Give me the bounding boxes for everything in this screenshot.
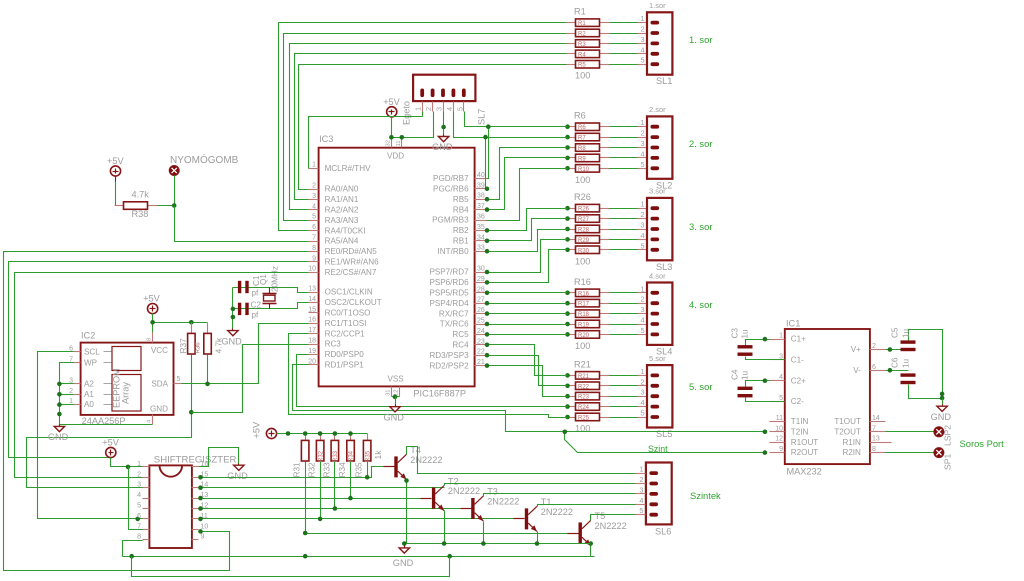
wire IC3 pin 27 PSP4/RD4 straight to row4-2 bbox=[487, 303, 568, 305]
svg-text:1: 1 bbox=[640, 118, 644, 127]
SL2 pad pin bbox=[651, 146, 660, 150]
resistor R30 100 ohm row 5 bbox=[567, 249, 576, 251]
svg-text:2. sor: 2. sor bbox=[689, 138, 712, 149]
IC2 pin 6 SCL bbox=[74, 351, 81, 353]
svg-text:3.sor: 3.sor bbox=[649, 187, 666, 196]
svg-text:R6: R6 bbox=[578, 125, 586, 131]
svg-text:R21: R21 bbox=[578, 374, 590, 380]
svg-text:2: 2 bbox=[312, 183, 316, 190]
svg-text:T2: T2 bbox=[448, 476, 459, 486]
IC1 pin 13 R1IN stub extension bbox=[886, 442, 892, 444]
IC1 pin 6 V- bbox=[870, 370, 886, 372]
shift register pin 11 bbox=[192, 518, 199, 520]
junction dot at R20 input bbox=[565, 332, 570, 337]
IC3 pin 34 RB1 bbox=[475, 240, 487, 242]
svg-text:2: 2 bbox=[424, 107, 433, 111]
svg-text:RA2/AN2: RA2/AN2 bbox=[325, 206, 359, 215]
svg-text:RA4/T0CKI: RA4/T0CKI bbox=[325, 226, 366, 235]
connector SL6 Szintek levels bbox=[646, 463, 672, 525]
IC2 pin 5 SDA bbox=[174, 383, 182, 385]
wire IC3 pin 26 RX/RC7 straight to row4-3 bbox=[487, 313, 568, 315]
svg-text:2: 2 bbox=[640, 210, 644, 219]
SL5 pad pin bbox=[651, 405, 660, 409]
output dots on shift register pins bbox=[198, 475, 203, 480]
resistor R20 100 ohm row 5 bbox=[567, 334, 576, 336]
IC3 pin 36 PGM/RB3 bbox=[475, 220, 487, 222]
IC3 pin 15 RC0/T1OSO bbox=[309, 312, 319, 314]
svg-text:6: 6 bbox=[137, 513, 141, 520]
pad LSP2 serial port line bbox=[934, 427, 944, 437]
IC3 pin 30 PSP7/RD7 bbox=[475, 272, 487, 274]
svg-text:VCC: VCC bbox=[151, 346, 168, 355]
wire RA4 (IC3 pin 6) to row-1 resistor 1 bbox=[279, 23, 567, 231]
SL7 pad pin 5 bbox=[462, 89, 466, 98]
wire R8 to connector SL2 pin 3 bbox=[610, 147, 638, 149]
svg-text:R35: R35 bbox=[365, 450, 371, 462]
svg-text:R25: R25 bbox=[578, 416, 590, 422]
svg-text:R8: R8 bbox=[578, 146, 586, 152]
svg-text:1u: 1u bbox=[741, 329, 750, 339]
junction dot R35 bbox=[365, 475, 370, 480]
resistor R22 100 ohm row 2 bbox=[567, 385, 576, 387]
svg-text:RA5/AN4: RA5/AN4 bbox=[325, 237, 359, 246]
wire IC3 pin 33 INT/RB0 to row3-3 bbox=[487, 230, 568, 252]
svg-text:A1: A1 bbox=[84, 390, 94, 399]
SL2 pad pin bbox=[651, 156, 660, 160]
wire R20 to connector SL4 pin 5 bbox=[610, 334, 638, 336]
svg-text:15: 15 bbox=[308, 306, 316, 313]
wire R2IN to serial pad bbox=[886, 452, 934, 454]
svg-text:22: 22 bbox=[477, 349, 485, 356]
svg-text:2: 2 bbox=[137, 471, 141, 478]
SL6 pad pin 4 bbox=[649, 502, 658, 506]
+5V symbol at EEPROM VCC bbox=[148, 304, 158, 314]
svg-text:5: 5 bbox=[640, 160, 644, 169]
svg-text:100: 100 bbox=[575, 71, 590, 81]
wire T4 collector to SL6 pin1 bbox=[407, 447, 636, 474]
+5V supply symbol for base resistors bbox=[266, 428, 276, 438]
capacitor C2 pF bbox=[238, 303, 241, 315]
wire RA2 (IC3 pin 4) to row-1 resistor 3 bbox=[290, 44, 567, 210]
svg-text:Q1: Q1 bbox=[259, 274, 268, 285]
svg-text:SL1: SL1 bbox=[656, 76, 672, 86]
wire R32 bottom to transistor base line bbox=[320, 462, 322, 519]
ground symbol below EEPROM bbox=[59, 425, 61, 427]
resistor R4 100 ohm row 4 bbox=[567, 53, 576, 55]
resistor R27 100 ohm row 2 bbox=[567, 218, 576, 220]
pad SP1 serial port line bbox=[934, 448, 944, 458]
svg-text:18: 18 bbox=[308, 338, 316, 345]
svg-text:5: 5 bbox=[639, 506, 643, 515]
shift register pin 12 bbox=[192, 508, 199, 510]
svg-text:5: 5 bbox=[177, 376, 181, 383]
svg-text:OSC1/CLKIN: OSC1/CLKIN bbox=[325, 288, 373, 297]
shift register pin 15 bbox=[192, 477, 199, 479]
svg-text:V-: V- bbox=[853, 366, 861, 375]
wire SL7 pin5 / PGD to resistor row2-1 bbox=[465, 112, 568, 127]
svg-text:+5V: +5V bbox=[143, 294, 160, 304]
wire IC3 pin 19 RD0/PSP0 under chip to row5-4 bbox=[297, 355, 568, 407]
svg-text:14: 14 bbox=[872, 415, 880, 422]
svg-text:3: 3 bbox=[640, 305, 644, 314]
svg-text:SDA: SDA bbox=[151, 380, 168, 389]
svg-text:5.sor: 5.sor bbox=[649, 354, 666, 363]
junction dot at R19 input bbox=[565, 322, 570, 327]
IC3 pin 23 RC4 bbox=[475, 344, 487, 346]
svg-text:5. sor: 5. sor bbox=[689, 381, 712, 392]
resistor R25 100 ohm row 5 bbox=[567, 417, 576, 419]
svg-text:R20: R20 bbox=[578, 333, 590, 339]
svg-text:R1: R1 bbox=[578, 21, 586, 27]
svg-text:20MHz: 20MHz bbox=[271, 266, 280, 292]
svg-text:5: 5 bbox=[455, 107, 464, 111]
svg-text:23: 23 bbox=[477, 338, 485, 345]
SL1 pad pin bbox=[651, 42, 660, 46]
svg-text:40: 40 bbox=[477, 172, 485, 179]
wire R31 bottom to transistor base line bbox=[305, 462, 307, 534]
svg-text:4: 4 bbox=[779, 374, 783, 381]
wire RE0 (pin8) left bus to SR pin10 loop bbox=[4, 252, 309, 571]
resistor R10 100 ohm row 5 bbox=[567, 168, 576, 170]
svg-text:5: 5 bbox=[640, 241, 644, 250]
svg-text:13: 13 bbox=[872, 436, 880, 443]
svg-text:11: 11 bbox=[776, 415, 783, 422]
svg-text:R31: R31 bbox=[293, 462, 302, 477]
svg-text:19: 19 bbox=[308, 348, 316, 355]
junction dot at R16 input bbox=[565, 291, 570, 296]
IC3 pin 10 RE2/CS#/AN7 bbox=[309, 272, 319, 274]
wire R7 to connector SL2 pin 2 bbox=[610, 137, 638, 139]
wire WP A2 A1 A0 to GND bbox=[60, 363, 153, 425]
resistor R37 4.7k pullup bbox=[191, 323, 193, 334]
junction dot at R30 input bbox=[565, 248, 570, 253]
resistor R24 100 ohm row 4 bbox=[567, 406, 576, 408]
svg-text:R1: R1 bbox=[574, 7, 586, 17]
svg-text:2: 2 bbox=[640, 25, 644, 34]
IC3 pin 1 MCLR#/THV bbox=[309, 168, 319, 170]
wire T3 emitter down to rail bbox=[483, 522, 485, 544]
svg-text:3: 3 bbox=[640, 221, 644, 230]
svg-text:R27: R27 bbox=[578, 217, 590, 223]
wire R6 to connector SL2 pin 1 bbox=[610, 126, 638, 128]
wire R16 to connector SL4 pin 1 bbox=[610, 292, 638, 294]
shift register pin 9 bbox=[192, 539, 199, 541]
resistor R33 1k bbox=[334, 434, 336, 441]
wire T4 emitter down to rail bbox=[406, 480, 408, 544]
resistor R17 100 ohm row 2 bbox=[567, 303, 576, 305]
svg-text:2N2222: 2N2222 bbox=[410, 455, 442, 465]
capacitor C3 1u bbox=[746, 340, 770, 346]
junction dot at R22 input bbox=[565, 384, 570, 389]
svg-text:R16: R16 bbox=[578, 291, 590, 297]
wire R5 to connector SL1 pin 5 bbox=[610, 64, 638, 66]
junction dot at R28 input bbox=[565, 227, 570, 232]
svg-text:R1IN: R1IN bbox=[842, 438, 861, 447]
svg-text:6: 6 bbox=[312, 224, 316, 231]
svg-text:R21: R21 bbox=[574, 359, 591, 369]
resistor R7 100 ohm row 2 bbox=[567, 137, 576, 139]
wire T2 collector to SL6 pin2 bbox=[445, 484, 636, 486]
svg-text:R22: R22 bbox=[578, 384, 590, 390]
wire R9 to connector SL2 pin 4 bbox=[610, 157, 638, 159]
svg-text:33: 33 bbox=[477, 245, 485, 252]
IC3 pin 28 PSP5/RD5 bbox=[475, 292, 487, 294]
svg-text:R2OUT: R2OUT bbox=[791, 448, 818, 457]
wire VCC net with pullup rail bbox=[152, 314, 154, 333]
wire IC3 pin 38 RB5 to row2-3 bbox=[487, 148, 568, 200]
resistor R9 100 ohm row 4 bbox=[567, 157, 576, 159]
svg-text:9: 9 bbox=[779, 446, 783, 453]
wire R2 to connector SL1 pin 2 bbox=[610, 33, 638, 35]
wire +5V down to VDD pins bbox=[392, 117, 402, 138]
IC1 pin 2 V+ bbox=[870, 349, 886, 351]
wire R17 to connector SL4 pin 2 bbox=[610, 303, 638, 305]
svg-text:16: 16 bbox=[308, 317, 316, 324]
wire IC3 pin 35 RB2 to row3-1 bbox=[487, 209, 568, 231]
svg-text:1k: 1k bbox=[373, 450, 383, 460]
wire SL7 pin4 / PGC to resistor row2-2 bbox=[454, 112, 568, 138]
wire R25 to connector SL5 pin 5 bbox=[610, 417, 638, 419]
shift register pin 6 bbox=[143, 518, 150, 520]
svg-text:R26: R26 bbox=[574, 192, 591, 202]
shift register pin 4 bbox=[143, 498, 150, 500]
svg-text:IC2: IC2 bbox=[81, 331, 95, 341]
svg-text:GND: GND bbox=[221, 336, 242, 346]
svg-text:T1: T1 bbox=[541, 497, 552, 507]
junction dot on SCL line bbox=[135, 517, 140, 522]
wire T1 collector to SL6 pin4 bbox=[538, 505, 636, 507]
svg-text:PGD/RB7: PGD/RB7 bbox=[433, 174, 469, 183]
IC3 pin 39 PGC/RB6 bbox=[475, 188, 487, 190]
svg-text:2N2222: 2N2222 bbox=[595, 521, 627, 531]
junction dot at R8 input bbox=[565, 145, 570, 150]
svg-text:Array: Array bbox=[121, 382, 131, 404]
svg-text:10: 10 bbox=[308, 266, 316, 273]
svg-text:9: 9 bbox=[201, 534, 205, 541]
IC2 inner array symbol boxes bbox=[112, 347, 141, 371]
junction dot bbox=[486, 124, 491, 129]
svg-text:R32: R32 bbox=[308, 462, 317, 477]
resistor R21 100 ohm row 1 bbox=[567, 375, 576, 377]
ground symbol near IC3 top bbox=[443, 135, 445, 137]
svg-text:RC3: RC3 bbox=[325, 340, 342, 349]
svg-text:6: 6 bbox=[872, 364, 876, 371]
svg-text:MCLR#/THV: MCLR#/THV bbox=[325, 164, 371, 173]
svg-text:SL3: SL3 bbox=[656, 262, 672, 272]
svg-text:MAX232: MAX232 bbox=[787, 467, 822, 477]
resistor R34 1k bbox=[350, 434, 352, 441]
svg-text:IC3: IC3 bbox=[319, 134, 333, 144]
svg-text:R32: R32 bbox=[318, 450, 324, 462]
branch down to IC3 pin 39 PGC/RB6 bbox=[486, 138, 487, 189]
svg-text:SL7: SL7 bbox=[477, 109, 487, 125]
svg-text:RE2/CS#/AN7: RE2/CS#/AN7 bbox=[325, 268, 377, 277]
+5V supply symbol at shift register bbox=[106, 447, 116, 457]
IC3 pin 38 RB5 bbox=[475, 199, 487, 201]
IC3 pin 25 TX/RC6 bbox=[475, 324, 487, 326]
svg-text:C4: C4 bbox=[731, 369, 740, 380]
svg-text:R24: R24 bbox=[578, 405, 590, 411]
svg-text:3: 3 bbox=[435, 107, 444, 111]
SL1 pad pin bbox=[651, 52, 660, 56]
connector SL3 bbox=[647, 198, 672, 260]
connector SL7 Egeto programming header bbox=[413, 75, 475, 101]
wire crystal caps to GND bbox=[232, 288, 234, 329]
svg-text:T2OUT: T2OUT bbox=[834, 427, 861, 436]
junction dot at R18 input bbox=[565, 311, 570, 316]
svg-text:R19: R19 bbox=[578, 323, 590, 329]
ground symbol right of shift register bbox=[238, 464, 240, 466]
resistor R31 1k bbox=[305, 434, 307, 441]
SL4 pad pin bbox=[651, 312, 660, 316]
svg-text:PSP5/RD5: PSP5/RD5 bbox=[429, 289, 469, 298]
resistor R16 100 ohm row 1 bbox=[567, 292, 576, 294]
wire IC3 pin 37 RB4 to row2-4 bbox=[487, 158, 568, 210]
resistor R36 4.7k pullup bbox=[207, 323, 209, 334]
svg-text:11: 11 bbox=[396, 140, 402, 146]
svg-text:T1IN: T1IN bbox=[791, 417, 809, 426]
junction dot R33 bbox=[333, 506, 338, 511]
wire RE1 (pin9) left bus to shift register +5V area bbox=[9, 262, 309, 458]
IC3 pin 37 RB4 bbox=[475, 209, 487, 211]
svg-text:R2: R2 bbox=[578, 32, 586, 38]
wire IC3 pin 23 RC4 to row5-1 bbox=[487, 345, 568, 376]
svg-text:1.sor: 1.sor bbox=[649, 1, 666, 10]
shift register IC box bbox=[149, 465, 192, 548]
svg-text:RA1/AN1: RA1/AN1 bbox=[325, 195, 359, 204]
svg-text:GND: GND bbox=[393, 558, 414, 568]
svg-text:VDD: VDD bbox=[387, 152, 404, 161]
svg-text:26: 26 bbox=[477, 307, 485, 314]
svg-text:RB4: RB4 bbox=[453, 205, 469, 214]
IC3 pin 3 RA1/AN1 bbox=[309, 199, 319, 201]
svg-text:A0: A0 bbox=[84, 400, 94, 409]
svg-text:GND: GND bbox=[48, 432, 69, 442]
wire T3 collector to SL6 pin3 bbox=[484, 494, 636, 497]
svg-text:2: 2 bbox=[69, 388, 73, 395]
wire IC3 pin 20 RD1/PSP1 under chip to MAX232 T2IN bbox=[293, 365, 765, 432]
junction dots on SDA bbox=[205, 382, 210, 387]
IC3 pin 20 RD1/PSP1 bbox=[309, 364, 319, 366]
IC1 pin 13 R1IN bbox=[870, 442, 886, 444]
svg-text:R5: R5 bbox=[578, 63, 586, 69]
IC1 MAX232 bbox=[785, 329, 870, 464]
svg-text:5: 5 bbox=[312, 214, 316, 221]
SL1 pad pin bbox=[651, 31, 660, 35]
capacitor C4 1u bbox=[746, 381, 770, 387]
svg-text:C5: C5 bbox=[891, 327, 900, 338]
svg-text:TX/RC6: TX/RC6 bbox=[440, 320, 469, 329]
crystal Q1 20MHz bbox=[269, 288, 271, 294]
svg-text:R3: R3 bbox=[578, 42, 586, 48]
wire R4 to connector SL1 pin 4 bbox=[610, 53, 638, 55]
svg-text:29: 29 bbox=[477, 276, 485, 283]
capacitor C1 pF bbox=[238, 281, 241, 293]
svg-text:RC0/T1OSO: RC0/T1OSO bbox=[325, 309, 371, 318]
emitter ground rail bbox=[407, 543, 591, 545]
svg-text:+5V: +5V bbox=[383, 97, 400, 107]
svg-text:8: 8 bbox=[147, 338, 153, 341]
shift register pin 7 bbox=[143, 529, 150, 531]
svg-text:PIC16F887P: PIC16F887P bbox=[413, 389, 466, 399]
svg-text:28: 28 bbox=[477, 286, 485, 293]
svg-text:2: 2 bbox=[872, 343, 876, 350]
wire R28 to connector SL3 pin 3 bbox=[610, 229, 638, 231]
wire RA3 (IC3 pin 5) to row-1 resistor 2 bbox=[284, 34, 567, 221]
svg-text:T2IN: T2IN bbox=[791, 427, 809, 436]
svg-text:14: 14 bbox=[308, 296, 316, 303]
SL5 pad pin bbox=[651, 374, 660, 378]
IC3 VDD pins 32 and 11 top stubs bbox=[391, 138, 393, 148]
wire T2OUT to serial pad bbox=[886, 431, 934, 433]
wire SR pin14 output toward T2 collector area bbox=[199, 487, 445, 489]
svg-text:32: 32 bbox=[386, 140, 392, 146]
svg-text:1u: 1u bbox=[741, 370, 750, 380]
wire IC3 pin 22 RD3/PSP3 to row5-2 bbox=[487, 356, 568, 386]
svg-text:1: 1 bbox=[779, 333, 783, 340]
SL4 pad pin bbox=[651, 291, 660, 295]
svg-text:VSS: VSS bbox=[388, 375, 405, 384]
svg-text:A2: A2 bbox=[84, 380, 94, 389]
IC3 pin 26 RX/RC7 bbox=[475, 313, 487, 315]
EEPROM IC2 24AA256P bbox=[81, 343, 174, 415]
ground return line lower bbox=[123, 556, 595, 558]
svg-text:RD1/PSP1: RD1/PSP1 bbox=[325, 361, 365, 370]
wire R26 to connector SL3 pin 1 bbox=[610, 208, 638, 210]
svg-text:T1OUT: T1OUT bbox=[834, 417, 861, 426]
wire R33 bottom to transistor base line bbox=[334, 462, 336, 509]
SL7 pad pin 1 bbox=[420, 89, 424, 98]
svg-text:SL5: SL5 bbox=[656, 429, 672, 439]
junction dot T2IN bbox=[763, 430, 768, 435]
wire SR pin13 output to T2 base line bbox=[199, 498, 421, 500]
svg-text:5: 5 bbox=[640, 56, 644, 65]
svg-text:37: 37 bbox=[477, 203, 485, 210]
svg-text:C2-: C2- bbox=[791, 397, 804, 406]
svg-text:4: 4 bbox=[640, 149, 644, 158]
svg-text:5: 5 bbox=[640, 326, 644, 335]
svg-text:R16: R16 bbox=[574, 277, 591, 287]
svg-text:SP1: SP1 bbox=[943, 454, 953, 470]
SL5 pad pin bbox=[651, 415, 660, 419]
svg-text:1: 1 bbox=[312, 162, 316, 169]
svg-text:GND: GND bbox=[227, 471, 248, 481]
junction dot at R17 input bbox=[565, 301, 570, 306]
junction dots at VDD bbox=[389, 135, 394, 140]
svg-text:OSC2/CLKOUT: OSC2/CLKOUT bbox=[325, 298, 382, 307]
svg-text:25: 25 bbox=[477, 318, 485, 325]
SL3 pad pin bbox=[651, 238, 660, 242]
IC1 pin 12 R1OUT bbox=[770, 442, 785, 444]
svg-text:C1-: C1- bbox=[791, 356, 804, 365]
junction dot at R6 input bbox=[565, 124, 570, 129]
wire OSC2 rail bbox=[233, 303, 309, 309]
resistor R8 100 ohm row 3 bbox=[567, 147, 576, 149]
wire IC3 pin 17 RC2/CCP1 under chip to row5-5 bbox=[289, 334, 568, 418]
svg-text:4: 4 bbox=[639, 496, 643, 505]
wire IC3 pin 29 PSP6/RD6 to row3-5 bbox=[487, 250, 568, 283]
IC1 pin 14 T1OUT bbox=[870, 421, 886, 423]
svg-text:38: 38 bbox=[477, 193, 485, 200]
svg-text:RE0/RD#/AN5: RE0/RD#/AN5 bbox=[325, 247, 378, 256]
SL5 pad pin bbox=[651, 384, 660, 388]
junction dot at R29 input bbox=[565, 237, 570, 242]
svg-text:C1+: C1+ bbox=[791, 335, 806, 344]
svg-text:2: 2 bbox=[640, 129, 644, 138]
resistor R26 100 ohm row 1 bbox=[567, 208, 576, 210]
wire IC3 pin 21 RD2/PSP2 to row5-3 bbox=[487, 366, 568, 397]
svg-text:R35: R35 bbox=[355, 462, 364, 477]
